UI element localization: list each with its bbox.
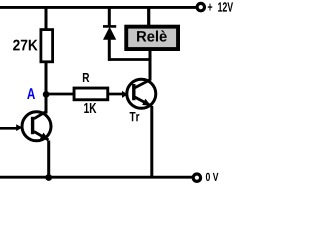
label + 12V <box>208 2 233 11</box>
wire bottom 0V rail <box>0 176 192 179</box>
label 0 V <box>206 173 219 181</box>
wire resistor R to transistor Tr base <box>109 93 123 96</box>
wire diode anode to Tr collector node <box>108 58 151 61</box>
wire input to Q1 base <box>0 127 17 130</box>
node A junction dot <box>43 91 50 98</box>
relay coil box <box>126 27 178 49</box>
terminal +12V <box>197 3 204 10</box>
transistor Tr (NPN) <box>122 79 156 108</box>
wire top +12V rail <box>0 6 196 9</box>
junction dot Q1 emitter at 0V rail <box>45 174 52 181</box>
wire Tr emitter to 0V rail <box>150 106 153 178</box>
label 27K <box>13 40 38 51</box>
wire +12V rail to relay coil <box>147 7 150 26</box>
wire relay bottom to Tr collector <box>149 49 152 81</box>
wire node A to resistor R <box>46 93 74 96</box>
label R <box>83 73 89 82</box>
terminal 0V <box>193 174 200 181</box>
resistor 27K <box>41 30 53 62</box>
label A (node) <box>27 88 35 99</box>
wire 27K to node A / Q1 collector <box>45 63 48 114</box>
wire +12V rail to resistor 27K <box>45 7 48 30</box>
label 1K <box>84 103 96 113</box>
resistor R <box>74 88 108 100</box>
wire Q1 emitter to 0V rail <box>47 141 50 178</box>
label Relè <box>137 30 167 41</box>
transistor Q1 (NPN) <box>16 112 51 141</box>
label Tr <box>130 112 140 121</box>
diode D1 (flyback) <box>103 7 116 61</box>
